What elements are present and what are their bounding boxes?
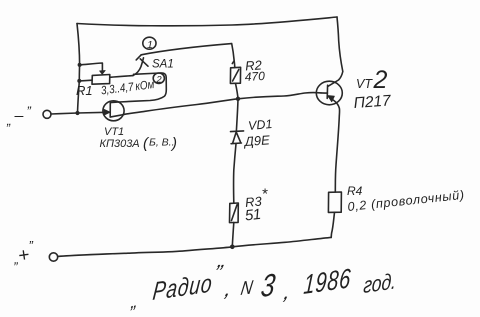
svg-text:„: „ xyxy=(130,290,138,312)
svg-text:”: ” xyxy=(29,238,34,253)
node contact 1 badge xyxy=(143,37,156,51)
terminal minus xyxy=(43,110,51,118)
switch SA1 contact stub xyxy=(136,55,141,60)
label VT1 xyxy=(100,126,178,152)
transistor VT1 xyxy=(103,101,124,121)
wire SA1 contact1 to R2 xyxy=(141,44,235,68)
wire VT1 drain to SA1 contact 2 loop xyxy=(119,73,166,102)
wire VT2 emitter to R4 xyxy=(335,116,339,192)
svg-text:3,3..4,7 кОм: 3,3..4,7 кОм xyxy=(100,77,155,97)
svg-text:*: * xyxy=(262,186,269,203)
svg-text:П217: П217 xyxy=(353,92,393,112)
wire top rail xyxy=(77,17,337,26)
svg-text:R1: R1 xyxy=(76,83,93,98)
resistor R3 xyxy=(230,203,239,223)
wire VT1 source to VT2 base xyxy=(124,93,321,115)
svg-text:2: 2 xyxy=(155,75,162,86)
label R2 xyxy=(244,57,265,84)
svg-text:Д9Е: Д9Е xyxy=(242,132,270,149)
caption source reference xyxy=(130,260,397,312)
svg-text:VT: VT xyxy=(356,77,373,91)
wire VD1 to R3 xyxy=(234,144,236,203)
svg-text:3: 3 xyxy=(259,268,277,305)
svg-text:VT1: VT1 xyxy=(104,126,124,138)
svg-text:R4: R4 xyxy=(347,184,363,198)
svg-text:51: 51 xyxy=(244,206,262,225)
svg-text:”: ” xyxy=(27,104,32,119)
node junction minus input xyxy=(75,111,79,115)
svg-text:,: , xyxy=(282,279,294,304)
svg-text:2: 2 xyxy=(373,66,388,94)
svg-text:470: 470 xyxy=(244,69,265,84)
node bottom junction xyxy=(230,245,235,250)
node mid junction xyxy=(236,97,240,101)
svg-text:N: N xyxy=(239,276,255,299)
terminal plus xyxy=(49,253,57,261)
node junction R1 left xyxy=(77,79,81,83)
transistor VT2 xyxy=(316,72,343,117)
svg-text:1986: 1986 xyxy=(303,263,353,300)
svg-text:,: , xyxy=(223,276,235,301)
wire right rail xyxy=(337,17,343,72)
svg-text:0,2 (проволочный): 0,2 (проволочный) xyxy=(347,188,466,214)
resistor R1 xyxy=(79,63,133,84)
label VD1 xyxy=(242,117,273,149)
svg-text:VD1: VD1 xyxy=(248,117,273,133)
label VT2 xyxy=(353,66,393,112)
wire minus terminal to VT1 gate xyxy=(51,112,107,114)
svg-text:”: ” xyxy=(211,260,226,285)
wire left rail xyxy=(77,24,80,114)
label R4 xyxy=(347,184,466,214)
svg-text:Б, В..: Б, В.. xyxy=(149,137,175,149)
node contact 2 badge xyxy=(153,73,164,86)
svg-text:КП303А: КП303А xyxy=(100,138,140,150)
diode VD1 xyxy=(231,131,244,144)
svg-text:SA1: SA1 xyxy=(152,59,174,71)
label R3 xyxy=(244,186,268,225)
svg-text:Радио: Радио xyxy=(151,268,214,306)
resistor R2 xyxy=(230,67,240,83)
wire R4 to bottom rail xyxy=(331,212,334,237)
svg-text:–: – xyxy=(14,108,24,125)
switch SA1 cross stroke xyxy=(140,59,148,66)
svg-text:год.: год. xyxy=(363,270,397,299)
svg-text:): ) xyxy=(170,135,177,152)
wire R2 to mid junction xyxy=(236,83,239,98)
label R1 value xyxy=(76,77,155,98)
label SA1 xyxy=(152,59,174,71)
wire mid junction to VD1 xyxy=(236,99,238,131)
resistor R4 xyxy=(328,192,341,212)
svg-text:„: „ xyxy=(6,113,11,128)
node junction wiper tap xyxy=(78,63,82,67)
wire R3 to bottom junction xyxy=(232,223,234,247)
wire bottom rail xyxy=(58,237,331,256)
switch SA1 blade xyxy=(133,58,144,76)
svg-text:1: 1 xyxy=(147,39,153,51)
